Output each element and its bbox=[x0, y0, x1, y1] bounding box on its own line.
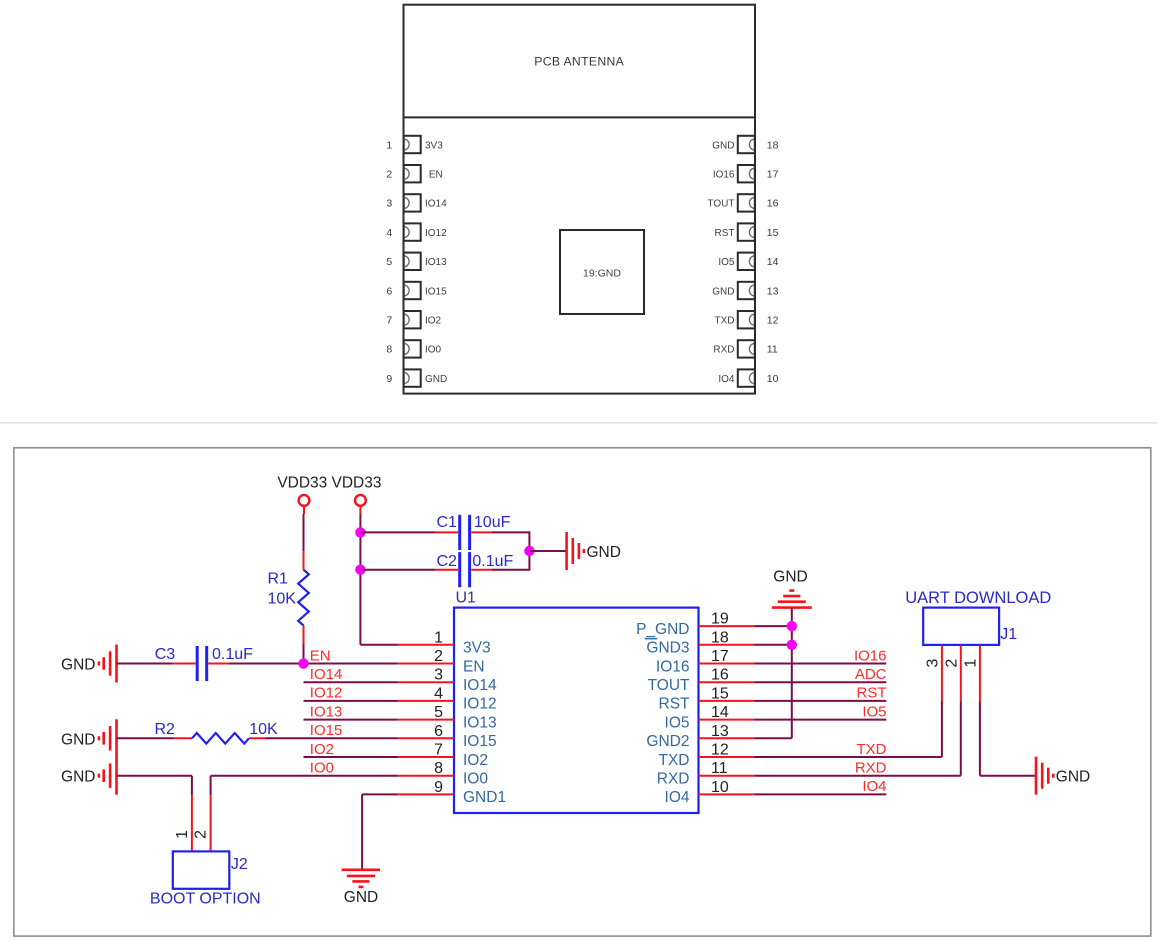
svg-text:5: 5 bbox=[386, 256, 392, 268]
ground symbol (J1) bbox=[1036, 757, 1053, 795]
ground symbol (U1 GND1) bbox=[342, 870, 380, 887]
svg-text:IO0: IO0 bbox=[463, 771, 488, 788]
svg-text:19:GND: 19:GND bbox=[583, 268, 621, 280]
svg-text:ADC: ADC bbox=[855, 666, 887, 683]
svg-text:U1: U1 bbox=[456, 590, 477, 607]
svg-text:1: 1 bbox=[386, 139, 392, 151]
svg-text:0.1uF: 0.1uF bbox=[472, 553, 513, 570]
svg-text:4: 4 bbox=[386, 227, 392, 239]
wire net IO2 bbox=[304, 756, 398, 758]
wire C3 to EN net bbox=[229, 663, 398, 665]
svg-text:19: 19 bbox=[711, 611, 729, 628]
footprint pad 4 bbox=[404, 223, 421, 240]
U1 pin 9 bbox=[398, 793, 455, 795]
svg-text:EN: EN bbox=[429, 170, 443, 181]
resistor R2 bbox=[192, 733, 249, 744]
wire net RXD bbox=[755, 775, 961, 777]
wire net TXD bbox=[755, 756, 942, 758]
svg-text:18: 18 bbox=[767, 139, 779, 151]
svg-text:RXD: RXD bbox=[657, 771, 690, 788]
svg-text:IO4: IO4 bbox=[665, 789, 690, 806]
svg-text:IO14: IO14 bbox=[425, 199, 447, 210]
ground symbol (C3) bbox=[99, 645, 117, 683]
svg-text:C1: C1 bbox=[437, 514, 458, 531]
svg-text:GND: GND bbox=[425, 374, 447, 385]
wire net RST bbox=[755, 700, 887, 702]
svg-text:IO4: IO4 bbox=[718, 374, 735, 385]
svg-text:IO12: IO12 bbox=[425, 228, 447, 239]
svg-text:15: 15 bbox=[711, 685, 729, 702]
U1 pin 7 bbox=[398, 756, 455, 758]
svg-text:3: 3 bbox=[386, 198, 392, 210]
svg-text:0.1uF: 0.1uF bbox=[212, 646, 253, 663]
footprint pad 11 bbox=[738, 340, 755, 357]
footprint pad 9 bbox=[404, 369, 421, 386]
wire J2 pin1 vertical bbox=[191, 776, 193, 796]
junction R1/EN bbox=[298, 658, 308, 668]
J2 pin 2 bbox=[210, 795, 212, 851]
svg-text:C2: C2 bbox=[437, 553, 458, 570]
footprint pad 10 bbox=[738, 369, 755, 386]
wire VDD33-left port lead bbox=[303, 506, 305, 514]
U1 pin 11 bbox=[699, 775, 755, 777]
svg-text:2: 2 bbox=[943, 659, 960, 668]
wire GND to C3 bbox=[117, 663, 173, 665]
ground symbol (R2) bbox=[99, 719, 117, 757]
svg-text:PCB ANTENNA: PCB ANTENNA bbox=[534, 55, 624, 69]
wire net IO12 bbox=[304, 700, 398, 702]
module footprint outline bbox=[404, 5, 756, 394]
R1 bottom lead bbox=[303, 626, 305, 645]
wire pin19 to ground bbox=[755, 625, 792, 627]
svg-text:GND2: GND2 bbox=[646, 733, 689, 750]
wire VDD33 to U1 pin1 bbox=[360, 644, 397, 646]
IC U1 body bbox=[454, 608, 699, 813]
svg-text:IO15: IO15 bbox=[425, 286, 447, 297]
svg-text:IO2: IO2 bbox=[463, 752, 488, 769]
svg-text:15: 15 bbox=[767, 227, 779, 239]
U1 pin 18 bbox=[699, 644, 755, 646]
connector J1 bbox=[923, 608, 999, 645]
svg-text:5: 5 bbox=[434, 704, 443, 721]
junction pin18/ground bbox=[787, 640, 797, 650]
svg-text:IO15: IO15 bbox=[310, 722, 343, 739]
footprint pad 12 bbox=[738, 311, 755, 328]
ground symbol (C1/C2) bbox=[567, 532, 584, 570]
svg-text:14: 14 bbox=[767, 256, 779, 268]
svg-text:RST: RST bbox=[857, 685, 887, 702]
svg-text:IO13: IO13 bbox=[463, 714, 497, 731]
U1 pin 5 bbox=[398, 719, 455, 721]
antenna divider line bbox=[404, 116, 756, 118]
connector J2 bbox=[173, 851, 230, 888]
wire IO0 to J2 pin2 vertical bbox=[210, 776, 212, 796]
svg-text:16: 16 bbox=[711, 667, 729, 684]
svg-text:GND: GND bbox=[587, 544, 621, 561]
wire R1 to EN net bbox=[303, 644, 305, 664]
C1 right lead bbox=[471, 531, 491, 533]
wire IO0 net bbox=[211, 775, 398, 777]
wire J1 pin1 vertical bbox=[979, 702, 981, 776]
wire net IO14 bbox=[304, 681, 398, 683]
footprint pad 14 bbox=[738, 253, 755, 270]
wire J1 pin2 to RXD bbox=[960, 702, 962, 776]
svg-text:R2: R2 bbox=[155, 721, 176, 738]
svg-text:IO14: IO14 bbox=[310, 666, 343, 683]
wire net IO16 bbox=[755, 663, 887, 665]
svg-text:9: 9 bbox=[434, 779, 443, 796]
footprint pad 8 bbox=[404, 340, 421, 357]
svg-text:IO2: IO2 bbox=[310, 741, 334, 758]
svg-text:GND: GND bbox=[712, 286, 734, 297]
wire J1 pin3 to TXD bbox=[941, 702, 943, 758]
svg-text:7: 7 bbox=[386, 315, 392, 327]
wire GND to R2 bbox=[117, 737, 174, 739]
svg-text:IO0: IO0 bbox=[425, 345, 442, 356]
svg-text:GND: GND bbox=[61, 657, 95, 674]
svg-text:EN: EN bbox=[463, 658, 485, 675]
svg-text:C3: C3 bbox=[155, 646, 176, 663]
svg-text:2: 2 bbox=[386, 169, 392, 181]
svg-text:10K: 10K bbox=[249, 721, 278, 738]
U1 pin 8 bbox=[398, 775, 455, 777]
footprint pad 1 bbox=[404, 136, 421, 153]
svg-text:P_GND: P_GND bbox=[636, 621, 689, 638]
wire net ADC bbox=[755, 681, 887, 683]
U1 pin 15 bbox=[699, 700, 755, 702]
footprint pad 15 bbox=[738, 223, 755, 240]
footprint pad 16 bbox=[738, 194, 755, 211]
U1 pin 10 bbox=[699, 793, 755, 795]
R1 top lead bbox=[303, 551, 305, 570]
wire GND1 vertical bbox=[361, 794, 363, 869]
wire pin13 to ground bbox=[755, 737, 792, 739]
svg-text:EN: EN bbox=[310, 647, 331, 664]
capacitor C3 bbox=[197, 646, 207, 681]
svg-text:IO5: IO5 bbox=[862, 703, 886, 720]
svg-text:GND3: GND3 bbox=[646, 640, 689, 657]
svg-text:8: 8 bbox=[434, 760, 443, 777]
U1 pin 17 bbox=[699, 663, 755, 665]
wire net IO13 bbox=[304, 719, 398, 721]
wire ground vertical bbox=[791, 608, 793, 739]
resistor R1 bbox=[298, 570, 309, 626]
U1 pin 1 bbox=[398, 644, 455, 646]
svg-text:TOUT: TOUT bbox=[648, 677, 690, 694]
J1 pin 2 bbox=[960, 645, 962, 702]
svg-text:1: 1 bbox=[434, 629, 443, 646]
wire VDD33-right vertical bbox=[359, 514, 361, 645]
wire C1-C2 tie vertical bbox=[528, 531, 530, 570]
U1 pin 16 bbox=[699, 681, 755, 683]
svg-text:13: 13 bbox=[767, 285, 779, 297]
svg-text:3: 3 bbox=[924, 659, 941, 668]
wire VDD33 to C1 bbox=[360, 531, 435, 533]
U1 pin 4 bbox=[398, 700, 455, 702]
svg-text:RXD: RXD bbox=[855, 760, 887, 777]
svg-text:J1: J1 bbox=[1000, 626, 1017, 643]
U1 pin 3 bbox=[398, 681, 455, 683]
svg-text:IO5: IO5 bbox=[665, 714, 690, 731]
footprint pad 7 bbox=[404, 311, 421, 328]
wire VDD33-left to R1 bbox=[303, 514, 305, 551]
svg-text:IO4: IO4 bbox=[862, 778, 886, 795]
svg-text:6: 6 bbox=[386, 285, 392, 297]
wire C2 to GND tie bbox=[492, 569, 530, 571]
J1 pin 3 bbox=[941, 645, 943, 702]
footprint pad 17 bbox=[738, 165, 755, 182]
svg-text:IO14: IO14 bbox=[463, 677, 497, 694]
wire tie to GND symbol bbox=[529, 550, 566, 552]
GND3 overline bbox=[645, 638, 657, 640]
svg-text:RST: RST bbox=[659, 696, 691, 713]
svg-text:IO5: IO5 bbox=[718, 257, 735, 268]
svg-text:1: 1 bbox=[174, 830, 191, 839]
junction pin19/ground bbox=[787, 621, 797, 631]
svg-text:4: 4 bbox=[434, 685, 443, 702]
svg-text:GND: GND bbox=[344, 889, 378, 906]
C2 right lead bbox=[471, 569, 491, 571]
svg-text:3: 3 bbox=[434, 667, 443, 684]
svg-text:IO13: IO13 bbox=[425, 257, 447, 268]
svg-text:UART DOWNLOAD: UART DOWNLOAD bbox=[905, 589, 1051, 607]
svg-text:GND: GND bbox=[1056, 769, 1090, 786]
footprint pad 6 bbox=[404, 282, 421, 299]
svg-text:2: 2 bbox=[434, 648, 443, 665]
svg-text:RST: RST bbox=[715, 228, 735, 239]
svg-text:14: 14 bbox=[711, 704, 729, 721]
U1 pin 14 bbox=[699, 719, 755, 721]
wire VDD33 to C2 bbox=[360, 569, 435, 571]
svg-text:VDD33: VDD33 bbox=[332, 475, 382, 492]
svg-text:10uF: 10uF bbox=[474, 514, 511, 531]
svg-text:GND1: GND1 bbox=[463, 789, 506, 806]
svg-text:TOUT: TOUT bbox=[707, 199, 734, 210]
svg-text:J2: J2 bbox=[231, 856, 248, 873]
svg-text:GND: GND bbox=[61, 731, 95, 748]
svg-text:TXD: TXD bbox=[659, 752, 690, 769]
U1 pin 2 bbox=[398, 663, 455, 665]
svg-text:10: 10 bbox=[767, 373, 779, 385]
svg-text:GND: GND bbox=[712, 140, 734, 151]
svg-text:TXD: TXD bbox=[857, 741, 887, 758]
U1 pin 13 bbox=[699, 737, 755, 739]
svg-text:3V3: 3V3 bbox=[425, 140, 443, 151]
svg-text:GND: GND bbox=[773, 569, 807, 586]
footprint center pad 19 bbox=[560, 230, 644, 314]
footprint pad 2 bbox=[404, 165, 421, 182]
U1 pin 6 bbox=[398, 737, 455, 739]
svg-text:8: 8 bbox=[386, 344, 392, 356]
svg-text:13: 13 bbox=[711, 723, 729, 740]
footprint pad 18 bbox=[738, 136, 755, 153]
svg-text:16: 16 bbox=[767, 198, 779, 210]
wire pin18 to ground bbox=[755, 644, 792, 646]
wire GND to J2 pin1 bbox=[117, 775, 192, 777]
svg-text:GND: GND bbox=[61, 769, 95, 786]
svg-text:11: 11 bbox=[767, 344, 778, 356]
capacitor C2 bbox=[460, 552, 470, 587]
svg-text:6: 6 bbox=[434, 723, 443, 740]
svg-text:12: 12 bbox=[767, 315, 779, 327]
VDD33 port circle (right) bbox=[355, 495, 366, 506]
svg-text:11: 11 bbox=[711, 760, 728, 777]
svg-text:10K: 10K bbox=[268, 591, 297, 608]
wire net IO4 bbox=[755, 793, 887, 795]
wire C1 to GND tie bbox=[492, 531, 530, 533]
J1 pin 1 bbox=[979, 645, 981, 702]
svg-text:BOOT OPTION: BOOT OPTION bbox=[150, 891, 261, 908]
svg-text:VDD33: VDD33 bbox=[277, 475, 327, 492]
U1 pin 12 bbox=[699, 756, 755, 758]
page separator line bbox=[0, 422, 1157, 424]
VDD33 port circle (left) bbox=[299, 495, 310, 506]
svg-text:IO15: IO15 bbox=[463, 733, 497, 750]
U1 pin 19 bbox=[699, 625, 755, 627]
wire VDD33-right port lead bbox=[359, 506, 361, 514]
schematic frame bbox=[14, 448, 1151, 936]
svg-text:IO16: IO16 bbox=[656, 658, 690, 675]
svg-text:IO16: IO16 bbox=[854, 647, 887, 664]
svg-text:7: 7 bbox=[434, 742, 443, 759]
svg-text:IO12: IO12 bbox=[463, 696, 497, 713]
svg-text:R1: R1 bbox=[268, 571, 289, 588]
C3 left lead bbox=[173, 663, 196, 665]
svg-text:9: 9 bbox=[386, 373, 392, 385]
svg-text:17: 17 bbox=[767, 169, 779, 181]
ground symbol (P_GND) bbox=[772, 591, 812, 608]
svg-text:IO16: IO16 bbox=[713, 170, 735, 181]
ground symbol (J2) bbox=[99, 757, 117, 795]
svg-text:IO12: IO12 bbox=[310, 685, 343, 702]
svg-text:12: 12 bbox=[711, 742, 729, 759]
svg-text:RXD: RXD bbox=[713, 345, 734, 356]
footprint pad 5 bbox=[404, 253, 421, 270]
wire GND1 horizontal bbox=[362, 793, 397, 795]
C3 right lead bbox=[208, 663, 229, 665]
R2 left lead bbox=[173, 737, 192, 739]
svg-text:10: 10 bbox=[711, 779, 729, 796]
svg-text:18: 18 bbox=[711, 629, 729, 646]
svg-text:2: 2 bbox=[193, 830, 210, 839]
R2 right lead bbox=[249, 737, 266, 739]
svg-text:IO2: IO2 bbox=[425, 316, 442, 327]
svg-text:IO13: IO13 bbox=[310, 703, 343, 720]
capacitor C1 bbox=[460, 515, 470, 550]
svg-text:3V3: 3V3 bbox=[463, 640, 491, 657]
svg-text:TXD: TXD bbox=[715, 316, 735, 327]
footprint pad 13 bbox=[738, 282, 755, 299]
wire J1 pin1 to GND bbox=[980, 775, 1036, 777]
svg-text:IO0: IO0 bbox=[310, 760, 334, 777]
wire net IO5 bbox=[755, 719, 887, 721]
footprint pad 3 bbox=[404, 194, 421, 211]
wire R2 to IO15 net bbox=[266, 737, 398, 739]
junction C1C2/GND bbox=[524, 546, 534, 556]
C2 left lead bbox=[435, 569, 458, 571]
junction VDD33/C2 bbox=[355, 565, 365, 575]
junction VDD33/C1 bbox=[355, 527, 365, 537]
C1 left lead bbox=[435, 531, 458, 533]
svg-text:17: 17 bbox=[711, 648, 729, 665]
J2 pin 1 bbox=[191, 795, 193, 851]
svg-text:1: 1 bbox=[962, 659, 979, 668]
